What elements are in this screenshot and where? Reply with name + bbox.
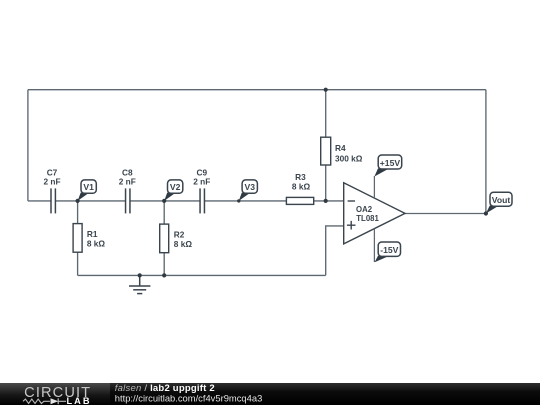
capacitor C8 labels (119, 168, 136, 187)
wire C8 to node V2 (130, 200, 164, 202)
wire bottom ground rail (78, 274, 326, 276)
resistor R3 labels (292, 172, 311, 192)
svg-text:2 nF: 2 nF (119, 177, 136, 187)
svg-text:300 kΩ: 300 kΩ (335, 153, 363, 163)
node junction ground (138, 273, 142, 277)
svg-text:V3: V3 (244, 182, 255, 192)
svg-text:R2: R2 (174, 230, 185, 240)
op-amp OA2 non-inverting pin mark (347, 221, 356, 230)
capacitor C9 (200, 188, 204, 213)
capacitor C9 labels (193, 168, 210, 187)
resistor R1 labels (87, 229, 106, 249)
flag V1 tail (78, 193, 90, 201)
op-amp OA2 body (344, 183, 405, 244)
resistor R4 (321, 137, 331, 165)
flag +15V (378, 155, 402, 169)
wire R3 to inverting node (314, 200, 344, 202)
resistor R4 labels (335, 143, 363, 163)
op-amp positive supply stub (373, 176, 375, 198)
svg-text:-15V: -15V (380, 245, 398, 255)
footer logo diode (51, 398, 59, 404)
wire node V3 to R3 (239, 200, 287, 202)
svg-text:LAB: LAB (67, 396, 92, 405)
wire R2 bottom (163, 253, 165, 276)
capacitor C7 labels (43, 168, 60, 187)
wire C7 to node V1 (56, 200, 78, 202)
flag Vout (490, 192, 512, 206)
footer logo resistor zigzag (23, 399, 50, 403)
capacitor C8 (126, 188, 130, 213)
op-amp negative supply stub (373, 229, 375, 262)
svg-text:8 kΩ: 8 kΩ (87, 238, 106, 248)
svg-text:R4: R4 (335, 143, 346, 153)
wire R4 to inverting node (325, 165, 327, 201)
node junction Vout corner (484, 211, 488, 215)
svg-text:TL081: TL081 (356, 214, 379, 223)
op-amp OA2 labels (356, 205, 379, 223)
node junction top (R4 to feedback) (324, 88, 328, 92)
node junction V1 (76, 199, 80, 203)
svg-text:8 kΩ: 8 kΩ (292, 182, 311, 192)
wire op-amp output (405, 213, 486, 215)
svg-text:Vout: Vout (492, 195, 511, 205)
wire right vertical (485, 90, 487, 214)
wire R2 top (163, 201, 165, 224)
svg-text:OA2: OA2 (356, 205, 373, 214)
flag -15V (378, 242, 400, 256)
flag V1 (81, 180, 96, 193)
resistor R2 (160, 224, 169, 253)
node junction R2 bottom (162, 273, 166, 277)
wire top feedback (28, 89, 486, 91)
svg-text:http://circuitlab.com/cf4v5r9m: http://circuitlab.com/cf4v5r9mcq4a3 (115, 393, 262, 404)
svg-text:R3: R3 (295, 172, 306, 182)
wire R1 top (77, 201, 79, 224)
wire left vertical (27, 90, 29, 201)
flag V3 tail (239, 193, 251, 201)
wire input to C7 (28, 200, 51, 202)
node V3 anchor (237, 199, 240, 202)
wire top junction to R4 (325, 90, 327, 138)
node junction V2 (162, 199, 166, 203)
resistor R2 labels (174, 230, 193, 250)
flag V2 (168, 180, 183, 193)
flag Vout tail (486, 206, 499, 214)
svg-text:8 kΩ: 8 kΩ (174, 239, 193, 249)
flag V2 tail (164, 193, 176, 201)
wire non-inverting input (326, 226, 344, 276)
footer bar (0, 383, 540, 405)
flag +15V tail (374, 168, 389, 176)
node junction inverting input (324, 199, 328, 203)
resistor R3 (286, 197, 313, 204)
wire C9 to node V3 (205, 200, 239, 202)
wire R1 bottom (77, 252, 79, 275)
svg-text:V1: V1 (83, 182, 94, 192)
op-amp OA2 inverting pin mark (348, 200, 355, 202)
svg-text:R1: R1 (87, 229, 98, 239)
svg-text:2 nF: 2 nF (193, 177, 210, 187)
svg-text:2 nF: 2 nF (43, 177, 60, 187)
flag -15V tail (375, 256, 390, 262)
svg-text:V2: V2 (170, 182, 181, 192)
wire node V2 to C9 (164, 200, 199, 202)
ground (129, 275, 150, 293)
wire node V1 to C8 (78, 200, 125, 202)
svg-text:+15V: +15V (380, 158, 401, 168)
capacitor C7 (51, 188, 55, 213)
resistor R1 (73, 224, 82, 253)
flag V3 (242, 180, 257, 193)
